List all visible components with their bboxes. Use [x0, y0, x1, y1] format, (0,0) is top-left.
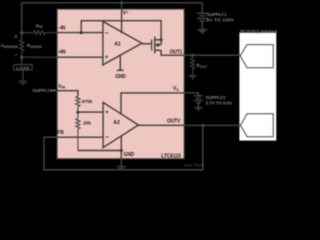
node GND junction: [120, 149, 123, 152]
wire OUTV external: [184, 124, 240, 126]
transistor PMOS: [152, 37, 162, 54]
svg-text:OUT1: OUT1: [170, 49, 183, 55]
wire top supply rail: [22, 3, 203, 33]
IC body LTC6115: [57, 9, 184, 159]
label SUPPLY2 2.7V TO 5.5V: [206, 95, 234, 106]
svg-text:A1: A1: [114, 41, 121, 47]
node -IN internal junction: [80, 31, 83, 34]
op-amp A2: [103, 102, 138, 147]
svg-text:VRSENSE: VRSENSE: [1, 43, 19, 49]
wire A2 output to OUTV: [138, 124, 184, 126]
resistor ROUT: [191, 55, 195, 75]
wire Vs external to battery: [184, 93, 198, 96]
svg-text:975k: 975k: [82, 99, 93, 105]
node -IN external junction: [20, 31, 23, 34]
node source-body tie: [160, 38, 163, 41]
svg-text:GND: GND: [115, 74, 126, 80]
node V+ tap on rail: [120, 1, 124, 5]
wire FB internal: [57, 136, 103, 138]
svg-text:OUTV: OUTV: [167, 118, 181, 124]
wire A2 ground: [120, 136, 122, 159]
wire tap to A2 plus: [78, 111, 103, 113]
wire +IN internal: [57, 56, 103, 58]
svg-text:+IN: +IN: [58, 50, 66, 56]
ground of GND pin: [117, 167, 127, 170]
label SUPPLY1 arrow to VIN pin: [32, 88, 56, 94]
svg-text:SUPPLY2: SUPPLY2: [206, 95, 227, 101]
resistor RIN: [22, 31, 57, 35]
wire VIN to divider: [57, 91, 78, 97]
svg-text:6115 TA01b: 6115 TA01b: [184, 164, 204, 168]
wire A1 output to gate: [142, 43, 151, 45]
load box: [14, 57, 32, 81]
ground lead of A1: [117, 54, 124, 70]
svg-text:+: +: [105, 55, 109, 61]
pin V+: [121, 3, 123, 33]
white connector panel DC2026: [239, 33, 276, 141]
wire OUT1 external: [184, 54, 240, 56]
wire drain to OUT1: [161, 50, 184, 55]
svg-text:−: −: [105, 134, 109, 141]
svg-text:SUPPLY1: SUPPLY1: [32, 88, 53, 94]
svg-text:FB: FB: [57, 130, 64, 136]
svg-text:ROUT: ROUT: [196, 63, 208, 69]
svg-text:A2: A2: [113, 120, 120, 126]
svg-text:−IN: −IN: [58, 25, 66, 31]
svg-text:−: −: [105, 30, 109, 37]
node divider tap: [76, 111, 79, 114]
label SUPPLY1 8V TO 100V: [207, 12, 235, 23]
svg-text:25k: 25k: [83, 120, 91, 126]
ground of SUPPLY1: [198, 30, 208, 33]
battery V_SUPPLY2: [194, 96, 203, 108]
wire -IN internal: [57, 32, 103, 34]
connector tag OUT1: [240, 45, 273, 68]
svg-text:RSENSE: RSENSE: [27, 43, 43, 49]
svg-text:LOAD: LOAD: [16, 66, 30, 71]
svg-text:LTC6115: LTC6115: [161, 154, 181, 160]
label VRSENSE plus-minus: [1, 35, 19, 60]
node ROUT tap: [191, 54, 194, 57]
ground of load: [18, 81, 27, 84]
ground of SUPPLY2: [194, 108, 203, 111]
svg-text:SUPPLY1: SUPPLY1: [207, 12, 228, 18]
svg-text:8V TO 100V: 8V TO 100V: [207, 17, 235, 23]
wire +IN: [22, 56, 57, 58]
wire -IN to source rail: [81, 21, 161, 40]
svg-text:+: +: [105, 110, 109, 116]
wire FB external loop: [44, 126, 203, 170]
op-amp A1: [103, 22, 142, 65]
wire Vs to A2 supply: [121, 93, 184, 114]
svg-text:RIN: RIN: [36, 23, 43, 29]
wire divider bottom to gnd node: [78, 150, 121, 152]
svg-text:GND: GND: [124, 152, 135, 158]
connector tag OUTV: [241, 114, 274, 137]
battery V_SUPPLY1: [197, 3, 208, 30]
svg-text:2.7V TO 5.5V: 2.7V TO 5.5V: [206, 101, 234, 107]
resistor 25k: [76, 112, 80, 150]
resistor RSENSE: [20, 33, 24, 58]
node OUTV feedback tap: [201, 124, 204, 127]
node +IN external junction: [20, 56, 23, 59]
wire GND pin below box: [120, 159, 122, 167]
resistor 975k: [76, 96, 80, 112]
ground of ROUT: [188, 76, 197, 79]
svg-text:+: +: [14, 35, 18, 41]
svg-text:DC2026 (Linduino): DC2026 (Linduino): [240, 29, 278, 34]
